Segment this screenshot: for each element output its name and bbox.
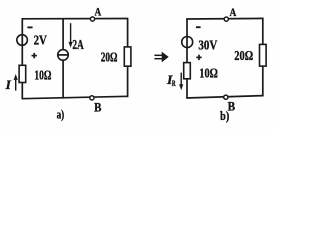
svg-text:30V: 30V — [198, 39, 217, 54]
resistor 10ohm circuit b (body) — [184, 63, 191, 79]
svg-text:2V: 2V — [34, 34, 47, 49]
svg-text:b): b) — [220, 108, 229, 123]
polarity minus (30V) — [196, 26, 201, 28]
polarity minus (2V) — [27, 26, 32, 28]
svg-text:A: A — [95, 7, 102, 19]
wire: circuit a bottom wire — [22, 96, 129, 98]
svg-text:R: R — [172, 78, 176, 88]
current arrow 2A — [69, 23, 73, 48]
wire: circuit a middle branch — [62, 19, 64, 50]
node B circuit b — [224, 95, 228, 99]
current source 2A — [58, 50, 69, 61]
polarity plus (30V) — [196, 55, 201, 60]
wire: circuit b bottom wire — [186, 96, 263, 98]
resistor 20ohm circuit a (body) — [124, 47, 131, 66]
node B circuit a — [90, 96, 94, 100]
svg-text:I: I — [5, 78, 12, 92]
wire: circuit a top wire — [22, 18, 129, 20]
node A circuit b — [224, 17, 228, 21]
resistor 10ohm circuit a (body) — [19, 65, 26, 82]
polarity plus (2V) — [32, 53, 37, 58]
svg-text:2A: 2A — [72, 38, 84, 53]
svg-text:A: A — [230, 7, 237, 19]
current source bar — [57, 54, 68, 56]
svg-text:20Ω: 20Ω — [234, 49, 253, 64]
arrow implies (double arrow) — [154, 52, 168, 61]
svg-text:a): a) — [57, 107, 65, 122]
wire: circuit b top wire — [186, 17, 263, 20]
node A circuit a — [90, 17, 94, 21]
svg-text:20Ω: 20Ω — [101, 50, 118, 65]
current arrow I (circuit a) — [14, 74, 18, 91]
wire: circuit a right branch — [127, 19, 129, 48]
svg-text:B: B — [94, 101, 101, 115]
wire: circuit a left branch — [21, 19, 23, 66]
wire: circuit b left branch — [186, 19, 188, 63]
svg-text:10Ω: 10Ω — [199, 67, 218, 82]
resistor 20ohm circuit b (body) — [260, 44, 267, 66]
wire: circuit b right branch — [262, 18, 264, 44]
voltage source 2V — [17, 35, 28, 46]
svg-text:10Ω: 10Ω — [34, 69, 51, 84]
current arrow IR (circuit b) — [179, 73, 183, 91]
voltage source 30V — [182, 37, 193, 48]
